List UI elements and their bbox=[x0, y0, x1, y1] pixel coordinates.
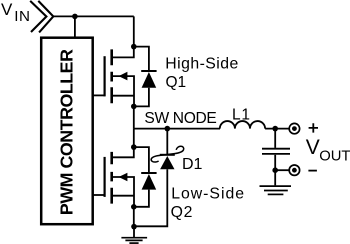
label D1 bbox=[182, 156, 203, 173]
wire SW down to Q2 drain bbox=[133, 129, 135, 148]
transistor Q1 bbox=[105, 49, 134, 104]
body arrow Q2 bbox=[119, 173, 128, 182]
wire Q1 source to SW node bbox=[133, 106, 135, 128]
wire D1 anode down bbox=[134, 169, 167, 226]
PWM controller box U1 bbox=[41, 38, 92, 225]
wire Q2 drain to body diode bbox=[134, 147, 149, 172]
svg-text:SW NODE: SW NODE bbox=[144, 110, 216, 127]
terminal plus bbox=[289, 123, 299, 133]
plus sign bbox=[309, 123, 318, 132]
wire gate stub Q2 bbox=[93, 194, 105, 196]
label Low-Side bbox=[171, 185, 245, 202]
svg-text:OUT: OUT bbox=[319, 149, 350, 165]
drain lead Q1 bbox=[113, 49, 134, 57]
drain lead Q2 bbox=[113, 150, 134, 158]
wire bottom rail to minus terminal bbox=[275, 169, 289, 171]
node Q1 source dot bbox=[131, 104, 137, 110]
label PWM CONTROLLER bbox=[56, 49, 76, 215]
svg-text:Q2: Q2 bbox=[171, 204, 194, 221]
node SW junction dot bbox=[165, 126, 171, 132]
label VIN bbox=[1, 0, 31, 25]
wire to capacitor bbox=[274, 129, 276, 148]
svg-text:V: V bbox=[306, 136, 320, 159]
channel segments Q2 bbox=[110, 152, 113, 204]
wire Q1 drain to body diode bbox=[134, 47, 149, 70]
wire L1 to output bbox=[265, 128, 289, 130]
svg-text:L1: L1 bbox=[232, 107, 251, 124]
wire VIN rail down to Q1 drain bbox=[133, 16, 135, 46]
diode D1 triangle bbox=[160, 156, 174, 169]
wire VIN to PWM box bbox=[74, 16, 76, 36]
wire body diode Q2 anode bbox=[134, 190, 149, 207]
svg-text:Q1: Q1 bbox=[166, 74, 187, 91]
body diode Q2 cathode bar bbox=[141, 172, 156, 174]
minus sign bbox=[308, 170, 317, 172]
node output bottom junction bbox=[272, 167, 278, 173]
svg-text:High-Side: High-Side bbox=[165, 56, 238, 73]
wire body diode Q1 anode bbox=[134, 88, 149, 107]
capacitor bottom plate bbox=[262, 153, 290, 155]
input port chevron VIN bbox=[30, 1, 53, 33]
wire Q2 source to ground bbox=[133, 207, 135, 227]
node Q2 drain dot bbox=[131, 144, 137, 150]
capacitor top plate bbox=[262, 148, 290, 150]
wire SW to D1 bbox=[166, 129, 168, 154]
wire SW node rail bbox=[134, 128, 220, 130]
source lead Q1 bbox=[113, 95, 134, 97]
label Q2 bbox=[171, 204, 194, 221]
label VOUT bbox=[306, 136, 350, 165]
body diode Q2 triangle bbox=[142, 174, 157, 190]
wire gate stub Q1 bbox=[93, 94, 105, 96]
wire top VIN rail bbox=[53, 15, 134, 17]
node ground junction dot bbox=[131, 224, 137, 230]
svg-text:V: V bbox=[1, 0, 13, 19]
svg-text:Low-Side: Low-Side bbox=[171, 185, 245, 202]
gate bar Q1 bbox=[103, 56, 105, 96]
wire to output ground bbox=[274, 170, 276, 185]
current loop arrow bbox=[151, 146, 184, 162]
body lead Q2 bbox=[113, 177, 134, 205]
diode D1 cathode bar bbox=[160, 154, 175, 156]
ground (low side) bbox=[121, 238, 147, 243]
label High-Side bbox=[165, 56, 238, 73]
body lead Q1 bbox=[113, 76, 134, 104]
wire capacitor to lower rail bbox=[274, 155, 276, 170]
svg-text:PWM CONTROLLER: PWM CONTROLLER bbox=[56, 49, 76, 215]
label SW NODE bbox=[144, 110, 216, 127]
inductor L1 bbox=[220, 121, 265, 129]
terminal minus bbox=[289, 165, 299, 175]
label Q1 bbox=[166, 74, 187, 91]
source lead Q2 bbox=[113, 195, 134, 197]
node output top junction bbox=[272, 126, 278, 132]
channel segments Q1 bbox=[110, 49, 113, 103]
transistor Q2 bbox=[105, 150, 134, 205]
svg-text:D1: D1 bbox=[182, 156, 203, 173]
node Q2 source dot bbox=[131, 204, 137, 210]
node VIN junction bbox=[72, 14, 78, 20]
node Q1 drain dot bbox=[131, 44, 137, 50]
ground (output) bbox=[260, 186, 292, 194]
wire to ground symbol bbox=[133, 226, 135, 237]
body diode Q1 cathode bar bbox=[141, 70, 156, 72]
body diode Q1 triangle bbox=[142, 72, 157, 88]
label L1 bbox=[232, 107, 251, 124]
svg-text:IN: IN bbox=[14, 8, 30, 25]
body arrow Q1 bbox=[119, 72, 128, 81]
gate bar Q2 bbox=[103, 157, 105, 197]
